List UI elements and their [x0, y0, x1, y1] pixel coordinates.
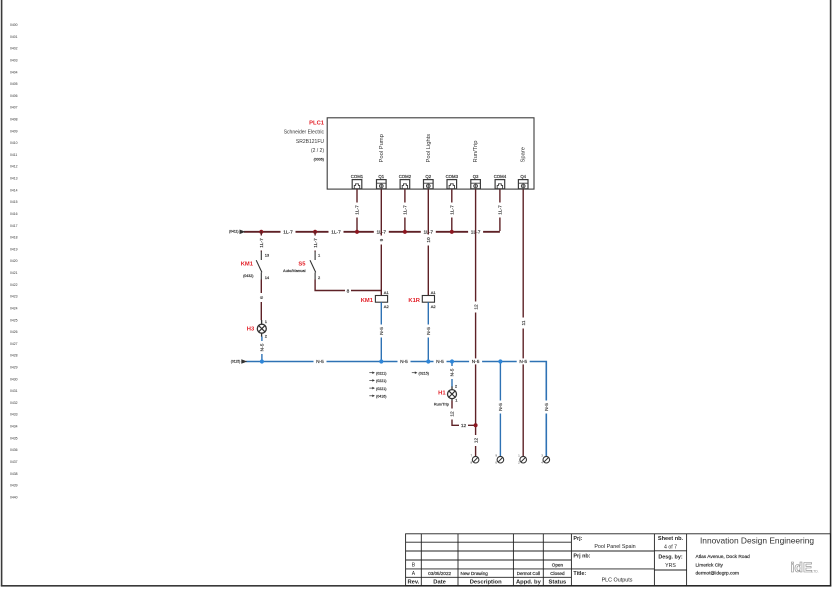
wire label 12 upper — [473, 302, 480, 313]
terminal COM2 — [399, 174, 412, 189]
svg-text:COM2: COM2 — [399, 174, 412, 179]
svg-text:(0006): (0006) — [314, 158, 324, 162]
svg-text:(0221): (0221) — [376, 379, 386, 383]
svg-text:1: 1 — [455, 398, 458, 403]
svg-text:12: 12 — [461, 423, 467, 429]
wire label N-5 below KM1 coil — [378, 325, 385, 338]
wire label 1L-7 S5 branch — [312, 236, 319, 251]
svg-text:9: 9 — [379, 238, 385, 241]
svg-text:YRS: YRS — [665, 563, 676, 569]
node N-5/KM1-A2 junction — [379, 359, 383, 363]
wire label 1L-7 seg5 — [468, 229, 483, 236]
svg-text:idE: idE — [791, 559, 813, 575]
svg-text:1L-7: 1L-7 — [450, 205, 456, 215]
device name label Run/Trip — [473, 140, 479, 162]
title block — [406, 534, 831, 586]
svg-text:0419: 0419 — [10, 247, 18, 251]
wire N-5 bus — [231, 359, 547, 456]
svg-text:0411: 0411 — [10, 153, 17, 157]
svg-text:Prj nb:: Prj nb: — [573, 553, 590, 559]
wire Q2 to coil K1R — [427, 189, 429, 296]
svg-text:Prj:: Prj: — [573, 536, 582, 542]
terminal Q1 — [377, 174, 387, 189]
svg-text:0422: 0422 — [10, 283, 18, 287]
wire label 1L-7 COM2 — [402, 203, 409, 218]
wire COM4 drop — [499, 189, 501, 231]
svg-text:Pool Lights: Pool Lights — [426, 134, 432, 163]
wire KM1 branch upper — [260, 231, 262, 252]
terminal X1-1 — [471, 454, 479, 465]
wire label N-5 seg4 — [469, 358, 482, 365]
wire label N-5 seg5 — [517, 358, 530, 365]
wire label 6 — [258, 293, 265, 302]
wire K1R coil to N-5 — [427, 302, 429, 361]
svg-text:0403: 0403 — [10, 58, 18, 62]
svg-text:2: 2 — [318, 275, 321, 280]
svg-text:0401: 0401 — [10, 35, 18, 39]
svg-text:N-5: N-5 — [519, 359, 527, 365]
svg-text:0421: 0421 — [10, 271, 18, 275]
wire label 12 horizontal — [459, 422, 468, 429]
svg-text:0407: 0407 — [10, 106, 18, 110]
svg-text:0432: 0432 — [10, 401, 18, 405]
svg-text:14: 14 — [265, 275, 270, 280]
svg-text:B: B — [412, 562, 416, 568]
wire label N-5 drop2 — [497, 401, 504, 414]
wire KM1 coil to N-5 — [380, 302, 382, 361]
svg-text:6: 6 — [259, 296, 265, 299]
svg-text:Run/Trip: Run/Trip — [434, 401, 450, 406]
wire label 12 below H1 — [449, 409, 456, 420]
svg-text:H1: H1 — [438, 390, 446, 396]
svg-text:Rev.: Rev. — [407, 580, 419, 586]
node 1L-7/S5 junction — [313, 230, 317, 234]
svg-text:COM3: COM3 — [446, 174, 459, 179]
svg-text:0409: 0409 — [10, 129, 18, 133]
PLC U1 box — [327, 118, 534, 189]
svg-text:0405: 0405 — [10, 82, 18, 86]
svg-text:0438: 0438 — [10, 472, 18, 476]
svg-text:0416: 0416 — [10, 212, 18, 216]
device name label Pool Lights — [426, 134, 432, 163]
svg-text:2: 2 — [455, 383, 458, 388]
svg-text:12: 12 — [473, 304, 479, 310]
svg-text:SR2B121FU: SR2B121FU — [296, 139, 324, 145]
terminal Q4 — [518, 174, 528, 189]
svg-text:0415: 0415 — [10, 200, 18, 204]
svg-text:A1: A1 — [431, 290, 437, 295]
wire COM3 drop — [451, 189, 453, 231]
svg-text:1: 1 — [318, 253, 321, 258]
node 1L-7/COM3 junction — [450, 230, 454, 234]
wire label 1L-7 seg4 — [421, 229, 436, 236]
svg-text:Spare: Spare — [521, 147, 527, 162]
wire label 1L-7 seg2 — [329, 229, 344, 236]
svg-text:N-5: N-5 — [379, 327, 385, 335]
svg-text:1L-7: 1L-7 — [498, 205, 504, 215]
wire label 1L-7 COM3 — [449, 203, 456, 218]
terminal Q3 — [471, 174, 481, 189]
svg-text:N-5: N-5 — [544, 403, 550, 411]
svg-text:0427: 0427 — [10, 342, 18, 346]
svg-text:Description: Description — [470, 580, 502, 586]
svg-text:0424: 0424 — [10, 307, 18, 311]
svg-text:7: 7 — [471, 454, 473, 458]
svg-text:A2: A2 — [431, 304, 437, 309]
wire label N-5 seg1 — [314, 358, 327, 365]
lamp H1 — [434, 383, 458, 406]
svg-text:1: 1 — [518, 454, 520, 458]
svg-text:1L-7: 1L-7 — [313, 238, 319, 248]
svg-text:PLC Outputs: PLC Outputs — [602, 578, 633, 584]
wire label 1L-7 KM1 branch — [258, 236, 265, 251]
svg-text:1L-7: 1L-7 — [259, 238, 265, 248]
wire KM1 to H3 — [260, 280, 262, 321]
svg-text:0435: 0435 — [10, 436, 18, 440]
svg-text:N-5: N-5 — [400, 359, 408, 365]
svg-text:0429: 0429 — [10, 366, 18, 370]
svg-text:0433: 0433 — [10, 413, 18, 417]
svg-text:(0221): (0221) — [376, 371, 386, 375]
svg-text:Closed: Closed — [550, 571, 565, 576]
node 1L-7/COM1 junction — [355, 230, 359, 234]
wire 1L-7 bus — [229, 230, 500, 235]
cross-reference arrow (0221) b — [369, 379, 386, 383]
svg-text:Q1: Q1 — [378, 174, 384, 179]
wire N-5 to H1 — [451, 361, 453, 387]
svg-text:0412: 0412 — [10, 165, 18, 169]
svg-text:0418: 0418 — [10, 236, 18, 240]
wire label 1L-7 COM1 — [354, 203, 361, 218]
wire label 12 lower — [473, 435, 480, 446]
terminal COM4 — [494, 174, 507, 189]
svg-text:A2: A2 — [384, 304, 390, 309]
svg-text:(0221): (0221) — [376, 387, 386, 391]
svg-text:Q2: Q2 — [425, 174, 431, 179]
terminal X1-4 — [541, 454, 549, 465]
svg-text:N-5: N-5 — [260, 343, 266, 351]
node N-5/H1 junction — [450, 359, 454, 363]
cross-reference arrow (0215) — [412, 371, 429, 375]
svg-text:COM1: COM1 — [351, 174, 364, 179]
svg-text:13: 13 — [265, 253, 270, 258]
svg-text:0440: 0440 — [10, 495, 18, 499]
wire label 11 — [520, 318, 527, 329]
svg-text:10: 10 — [426, 237, 432, 243]
svg-text:0439: 0439 — [10, 484, 18, 488]
svg-text:0428: 0428 — [10, 354, 18, 358]
node N-5/H3 junction — [260, 359, 264, 363]
terminal X1-3 — [518, 454, 526, 465]
svg-text:1L-7: 1L-7 — [403, 205, 409, 215]
wire label 1L-7 seg3 — [374, 229, 389, 236]
svg-text:0404: 0404 — [10, 70, 18, 74]
svg-text:Limerick City: Limerick City — [696, 562, 724, 568]
svg-text:9: 9 — [495, 454, 497, 458]
wire Q3 drop — [475, 189, 477, 456]
svg-text:0431: 0431 — [10, 389, 18, 393]
node 1L-7/COM2 junction — [403, 230, 407, 234]
wire H1 to Q3 node — [452, 401, 476, 426]
svg-text:0437: 0437 — [10, 460, 18, 464]
wire label N-5 below K1R coil — [425, 325, 432, 338]
terminal X1-2 — [495, 454, 503, 465]
svg-text:(0411): (0411) — [229, 230, 239, 234]
svg-text:Q4: Q4 — [520, 174, 526, 179]
svg-text:Sheet nb.: Sheet nb. — [658, 536, 684, 542]
svg-text:0423: 0423 — [10, 295, 18, 299]
svg-text:(0115): (0115) — [231, 360, 241, 364]
node Q3/H1 junction — [474, 423, 478, 427]
wire N-5 drop to X1-2 — [499, 361, 501, 456]
svg-text:0406: 0406 — [10, 94, 18, 98]
wire COM1 drop — [356, 189, 358, 231]
svg-text:Desg. by:: Desg. by: — [658, 554, 682, 560]
svg-text:(0432): (0432) — [243, 274, 253, 278]
row reference labels 0400-0440 — [10, 23, 18, 499]
wire label 8 — [345, 288, 351, 295]
svg-text:4 of 7: 4 of 7 — [664, 545, 677, 551]
company logo idE — [791, 559, 819, 575]
svg-text:0430: 0430 — [10, 377, 18, 381]
svg-text:2: 2 — [265, 334, 268, 339]
switch S5 — [283, 252, 321, 281]
svg-text:Appd. by: Appd. by — [516, 580, 542, 586]
svg-text:1L-7: 1L-7 — [283, 230, 293, 236]
wire S5 branch upper — [314, 231, 316, 252]
contact KM1 — [241, 252, 270, 281]
svg-text:Schneider Electric: Schneider Electric — [284, 130, 325, 136]
svg-text:Status: Status — [549, 580, 567, 586]
svg-text:Run/Trip: Run/Trip — [473, 140, 479, 162]
svg-text:N-5: N-5 — [436, 359, 444, 365]
cross-reference arrow (0221) a — [369, 371, 386, 375]
wire label N-5 drop4 — [543, 401, 550, 414]
svg-text:(0215): (0215) — [419, 371, 429, 375]
svg-text:dermot@idegrp.com: dermot@idegrp.com — [696, 571, 740, 577]
svg-text:LTD.: LTD. — [812, 570, 819, 574]
svg-text:1: 1 — [265, 319, 268, 324]
device name label Pool Pump — [379, 134, 385, 162]
wire label N-5 below H3 — [259, 341, 266, 354]
terminal COM1 — [351, 174, 364, 189]
svg-text:KM1: KM1 — [361, 298, 374, 304]
lamp H3 — [247, 319, 268, 339]
coil KM1 — [361, 290, 390, 309]
svg-text:0410: 0410 — [10, 141, 18, 145]
wire Q1 to coil KM1 — [380, 189, 382, 296]
wire label N-5 above H1 — [449, 366, 456, 379]
svg-text:Innovation Design Engineering: Innovation Design Engineering — [700, 536, 814, 546]
coil K1R — [408, 290, 436, 309]
svg-text:1L-7: 1L-7 — [355, 205, 361, 215]
wire label 1L-7 COM4 — [497, 203, 504, 218]
svg-text:(0416): (0416) — [376, 395, 386, 399]
cross-reference arrow (0221) c — [369, 387, 386, 391]
svg-text:Dermot Coll: Dermot Coll — [517, 571, 540, 576]
svg-text:0417: 0417 — [10, 224, 18, 228]
wire H3 to N-5 bus — [261, 337, 263, 362]
svg-text:1L-7: 1L-7 — [331, 230, 341, 236]
device name label Spare — [521, 147, 527, 162]
svg-text:N-5: N-5 — [450, 368, 456, 376]
wire label N-5 seg2 — [398, 358, 411, 365]
svg-text:N-5: N-5 — [472, 359, 480, 365]
svg-text:Open: Open — [552, 562, 564, 567]
svg-text:8: 8 — [347, 288, 350, 294]
svg-text:Title:: Title: — [573, 571, 586, 577]
svg-text:3: 3 — [541, 454, 543, 458]
terminal Q2 — [424, 174, 434, 189]
svg-text:0420: 0420 — [10, 259, 18, 263]
svg-text:0400: 0400 — [10, 23, 18, 27]
wire S5 to KM1 coil — [315, 280, 381, 291]
terminal COM3 — [446, 174, 459, 189]
svg-text:0402: 0402 — [10, 47, 18, 51]
node N-5/X1-2 junction — [498, 359, 502, 363]
svg-text:Auto/Manual: Auto/Manual — [283, 268, 306, 273]
svg-text:COM4: COM4 — [494, 174, 507, 179]
svg-text:A1: A1 — [384, 290, 390, 295]
node N-5/K1R-A2 junction — [426, 359, 430, 363]
svg-text:0434: 0434 — [10, 425, 18, 429]
wire label 10 — [425, 235, 432, 246]
svg-text:New Drawing: New Drawing — [461, 571, 489, 576]
svg-text:H3: H3 — [247, 327, 255, 333]
svg-text:11: 11 — [521, 320, 527, 325]
svg-text:K1R: K1R — [408, 298, 420, 304]
svg-text:PLC1: PLC1 — [309, 121, 325, 127]
svg-text:0414: 0414 — [10, 188, 18, 192]
svg-text:03/05/2022: 03/05/2022 — [428, 571, 451, 576]
svg-text:Pool Panel Spain: Pool Panel Spain — [594, 544, 635, 550]
wire label 1L-7 seg1 — [281, 229, 296, 236]
svg-text:12: 12 — [473, 438, 479, 444]
svg-text:12: 12 — [450, 411, 456, 417]
wire Q4 drop — [522, 189, 524, 456]
svg-text:N-5: N-5 — [498, 403, 504, 411]
svg-text:0413: 0413 — [10, 177, 18, 181]
svg-text:N-5: N-5 — [426, 327, 432, 335]
wire label N-5 seg3 — [434, 358, 447, 365]
svg-text:Q3: Q3 — [473, 174, 479, 179]
svg-text:Atlas Avenue, Dock Road: Atlas Avenue, Dock Road — [696, 554, 751, 560]
svg-text:Date: Date — [433, 580, 446, 586]
svg-text:0408: 0408 — [10, 118, 18, 122]
PLC1 label — [284, 121, 325, 162]
svg-text:A: A — [412, 571, 416, 577]
svg-text:0426: 0426 — [10, 330, 18, 334]
svg-text:Pool Pump: Pool Pump — [379, 134, 385, 162]
cross-reference arrow (0416) — [369, 395, 386, 399]
wire label 9 — [378, 236, 385, 245]
svg-text:N-5: N-5 — [316, 359, 324, 365]
svg-text:(2 / 2): (2 / 2) — [311, 148, 324, 154]
svg-text:S5: S5 — [298, 261, 306, 267]
title block texts — [407, 536, 814, 586]
svg-text:KM1: KM1 — [241, 261, 254, 267]
svg-text:0436: 0436 — [10, 448, 18, 452]
node 1L-7/KM1 junction — [259, 230, 263, 234]
svg-text:0425: 0425 — [10, 318, 18, 322]
wire COM2 drop — [404, 189, 406, 231]
